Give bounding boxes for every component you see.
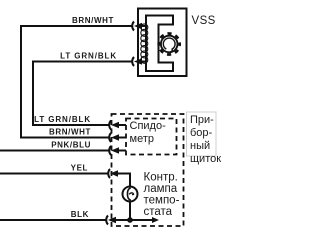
speedometer dashed box [126, 119, 177, 155]
wire YEL vertical to lamp [129, 173, 131, 188]
label BRN/WHT top [72, 16, 114, 25]
wire BLK [0, 219, 107, 221]
label PNK/BLU [51, 141, 91, 150]
sensor VSS box [138, 9, 187, 77]
connector at speedometer pin LT GRN/BLK [109, 121, 126, 130]
svg-text:щиток: щиток [190, 153, 221, 165]
label VSS [192, 15, 216, 27]
svg-text:стата: стата [144, 206, 173, 218]
label LT GRN/BLK speedometer row [34, 115, 91, 124]
svg-text:лампа: лампа [144, 183, 178, 195]
wire BRN/WHT top horizontal [21, 25, 132, 27]
instrument panel label frame [187, 112, 217, 156]
svg-text:При-: При- [190, 114, 214, 126]
label Контр. лампа темпостата [144, 172, 180, 219]
label LT GRN/BLK top [60, 52, 117, 61]
svg-text:BLK: BLK [71, 210, 89, 219]
svg-text:YEL: YEL [71, 164, 88, 173]
inductor coil L1 in VSS [141, 24, 148, 63]
VSS speedometer-drive bracket [146, 16, 173, 72]
connector at lamp pin BLK [106, 216, 154, 225]
svg-text:PNK/BLU: PNK/BLU [51, 141, 91, 150]
svg-text:BRN/WHT: BRN/WHT [72, 16, 114, 25]
label Спидометр [130, 120, 167, 145]
gear rotor in VSS [159, 34, 180, 55]
svg-text:LT GRN/BLK: LT GRN/BLK [34, 115, 91, 124]
svg-text:метр: метр [130, 133, 154, 145]
svg-text:LT GRN/BLK: LT GRN/BLK [60, 52, 117, 61]
svg-text:ный: ный [190, 140, 210, 152]
svg-text:VSS: VSS [192, 15, 216, 27]
wire LT GRN/BLK to speedometer [32, 124, 110, 126]
label Приборный щиток [190, 114, 221, 165]
wire lamp to BLK [129, 201, 131, 220]
wire LT GRN/BLK top horizontal [33, 61, 132, 63]
label BRN/WHT speedometer row [49, 128, 91, 137]
wire PNK/BLU [0, 150, 110, 152]
wire BRN/WHT left vertical [20, 25, 22, 139]
connector at VSS pin 2 [132, 57, 147, 66]
junction dot BLK/lamp [127, 217, 133, 223]
svg-text:Контр.: Контр. [144, 172, 178, 184]
connector at lamp pin YEL [108, 169, 131, 178]
label YEL [71, 164, 88, 173]
instrument panel dashed box [112, 114, 184, 226]
svg-text:Спидо-: Спидо- [130, 120, 167, 132]
wire LT GRN/BLK left vertical [32, 61, 34, 127]
label BLK [71, 210, 89, 219]
wire YEL [0, 173, 109, 175]
wire BRN/WHT to speedometer [20, 137, 110, 139]
svg-text:BRN/WHT: BRN/WHT [49, 128, 91, 137]
connector at VSS pin 1 [132, 22, 147, 31]
connector at speedometer pin BRN/WHT [109, 133, 126, 142]
lamp bulb cruise control indicator [123, 187, 138, 202]
svg-text:темпо-: темпо- [144, 195, 180, 207]
connector at speedometer pin PNK/BLU [109, 146, 126, 155]
svg-text:бор-: бор- [190, 127, 213, 139]
arrow BLK wire end [152, 217, 159, 223]
